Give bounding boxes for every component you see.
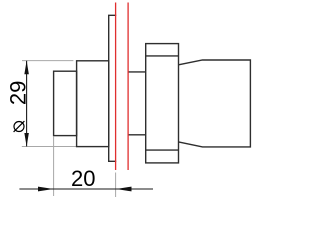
svg-text:29: 29 bbox=[5, 81, 30, 105]
svg-text:20: 20 bbox=[71, 166, 95, 191]
